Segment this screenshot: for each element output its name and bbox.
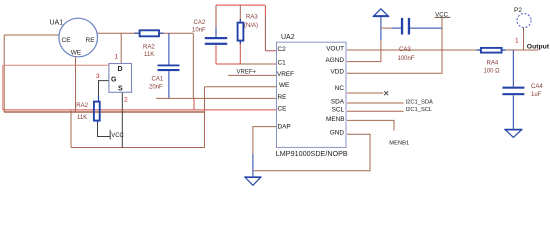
wire C2C1 net top [216,4,265,6]
capacitor CA1 [158,65,180,67]
wire CA4 bottom lead [512,95,514,129]
svg-text:100 Ω: 100 Ω [484,69,501,75]
wire left vertical of bottom box [70,111,72,148]
wire CA2 bottom lead [215,45,217,64]
svg-text:CA4: CA4 [531,84,543,90]
node red net CE line [3,109,277,111]
svg-text:UA2: UA2 [281,34,295,41]
wire NC [347,92,383,94]
svg-text:C2: C2 [278,46,287,53]
wire CA2 top lead [215,5,217,27]
wire RA2 right to WE corner [160,32,194,34]
no-connect X mark [384,91,388,95]
svg-text:VDD: VDD [331,69,345,76]
svg-text:AGND: AGND [326,57,345,64]
svg-text:RE: RE [86,37,96,44]
svg-text:VCC: VCC [111,133,124,139]
svg-text:VREF+: VREF+ [237,69,257,75]
wire SCL [347,110,404,112]
svg-text:RA3: RA3 [246,15,258,21]
wire transistor S lead down [121,92,123,147]
ground symbol bottom right [504,129,522,131]
svg-text:G: G [111,77,117,84]
wire CE sensor left vertical [3,35,5,112]
wire DAP [253,127,277,154]
wire CA3 left lead [381,27,392,29]
svg-text:RA2: RA2 [143,45,155,51]
svg-text:UA1: UA1 [50,19,64,26]
wire MENB stub [347,120,394,130]
wire RA2b bottom to VCC [98,123,111,137]
svg-text:D: D [118,66,123,73]
node red net upper horizontal [3,64,109,66]
IC UA2 LMP91000SDE/NOPB [277,42,347,147]
ground symbol bottom middle [244,176,261,178]
svg-text:11K: 11K [77,115,87,121]
wire sensor RE to resistor [97,32,139,34]
svg-text:1: 1 [115,53,119,60]
sensor UA1 [59,18,98,57]
svg-text:CA2: CA2 [194,20,206,26]
svg-text:1uF: 1uF [531,92,542,98]
svg-text:CA1: CA1 [152,77,164,83]
wire CA3 right lead [410,27,442,29]
svg-text:20nF: 20nF [149,85,163,91]
capacitor CA2 [205,37,227,39]
svg-text:P2: P2 [514,7,522,14]
VCC tick bottom left [109,130,111,140]
resistor RA2 bottom left [94,102,100,121]
svg-text:10nF: 10nF [192,28,206,34]
svg-text:CE: CE [62,37,72,44]
svg-text:MENB: MENB [326,116,344,123]
svg-text:DAP: DAP [278,124,291,131]
node red net left vertical [2,65,4,110]
ground symbol up arrow top [374,9,388,16]
wire RA3 bottom lead [239,41,241,64]
svg-text:SDA: SDA [331,98,345,105]
svg-text:NC: NC [335,85,345,92]
svg-text:Output: Output [527,43,550,50]
svg-text:CE: CE [278,106,287,113]
capacitor CA4 [502,87,524,89]
wire AGND [347,40,381,62]
resistor RA3 [239,19,241,44]
resistor RA2 top [135,32,164,34]
wire CE bottom long horizontal [4,111,204,113]
svg-text:VOUT: VOUT [326,45,344,52]
wire CE sensor left horizontal [4,34,59,36]
wire SDA [347,102,404,104]
svg-text:CA3: CA3 [399,47,411,53]
node red net RE drop vertical [193,98,195,110]
wire RA3 top lead [239,5,241,22]
svg-text:SCL: SCL [332,107,345,114]
svg-text:3: 3 [96,73,100,80]
svg-text:C1: C1 [278,59,287,66]
wire P2 lead [523,28,525,51]
wire RE pin horizontal [156,97,277,99]
svg-text:VREF: VREF [277,71,294,78]
connector P2 [517,14,531,28]
svg-text:LMP91000SDE/NOPB: LMP91000SDE/NOPB [276,149,348,158]
svg-text:MENB1: MENB1 [389,141,409,147]
svg-text:WE: WE [71,49,82,56]
wire ground lead blue [252,154,254,176]
svg-text:RA4: RA4 [487,61,499,67]
svg-text:RE: RE [278,94,287,101]
wire WE vertical [192,33,194,98]
wire VREF+ net [228,74,277,76]
wire right vertical to box bottom [204,87,206,148]
wire Output right [503,49,539,51]
wire transistor G lead [99,81,109,96]
svg-text:100nF: 100nF [398,56,415,62]
svg-text:2: 2 [124,97,128,104]
wire WE pin horizontal [205,86,277,88]
capacitor CA3 [401,18,403,35]
wire transistor D lead [120,33,122,63]
wire sensor WE vertical [75,56,77,112]
wire CA1 bottom lead [168,71,170,98]
wire GND pin return [253,134,370,170]
svg-text:11K: 11K [144,52,154,58]
wire CA1 top lead [168,33,170,64]
svg-text:GND: GND [330,130,345,137]
svg-text:(N/A): (N/A) [244,23,258,29]
svg-text:RA2: RA2 [76,103,88,109]
wire AGND blue lead to gnd arrow [380,16,382,40]
svg-text:I2C1_SDA: I2C1_SDA [406,99,434,105]
svg-text:1: 1 [515,38,519,45]
wire VDD [347,18,442,74]
resistor RA4 [477,49,506,51]
transistor Q1 box [109,64,132,93]
wire CA4 top lead [512,50,514,87]
wire VOUT [347,49,480,51]
svg-text:I2C1_SCL: I2C1_SCL [406,107,434,113]
svg-text:S: S [118,86,123,93]
wire C1 horizontal [216,63,240,65]
svg-text:WE: WE [279,82,289,89]
wire box bottom horizontal [71,147,205,149]
